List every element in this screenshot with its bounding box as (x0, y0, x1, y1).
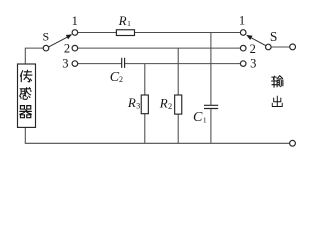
svg-text:R: R (127, 95, 136, 110)
svg-text:1: 1 (72, 14, 78, 28)
svg-text:3: 3 (62, 56, 68, 70)
svg-text:3: 3 (136, 101, 140, 110)
svg-text:1: 1 (203, 116, 207, 125)
svg-text:R: R (159, 95, 168, 110)
svg-text:1: 1 (127, 19, 131, 28)
svg-text:2: 2 (64, 42, 70, 56)
svg-text:R: R (118, 13, 127, 28)
svg-text:1: 1 (239, 14, 245, 28)
svg-text:2: 2 (119, 75, 123, 84)
svg-text:S: S (43, 30, 50, 44)
svg-text:2: 2 (168, 102, 172, 111)
svg-text:C: C (193, 110, 203, 125)
svg-text:2: 2 (250, 42, 256, 56)
svg-text:3: 3 (250, 56, 256, 70)
svg-text:S: S (270, 29, 278, 44)
